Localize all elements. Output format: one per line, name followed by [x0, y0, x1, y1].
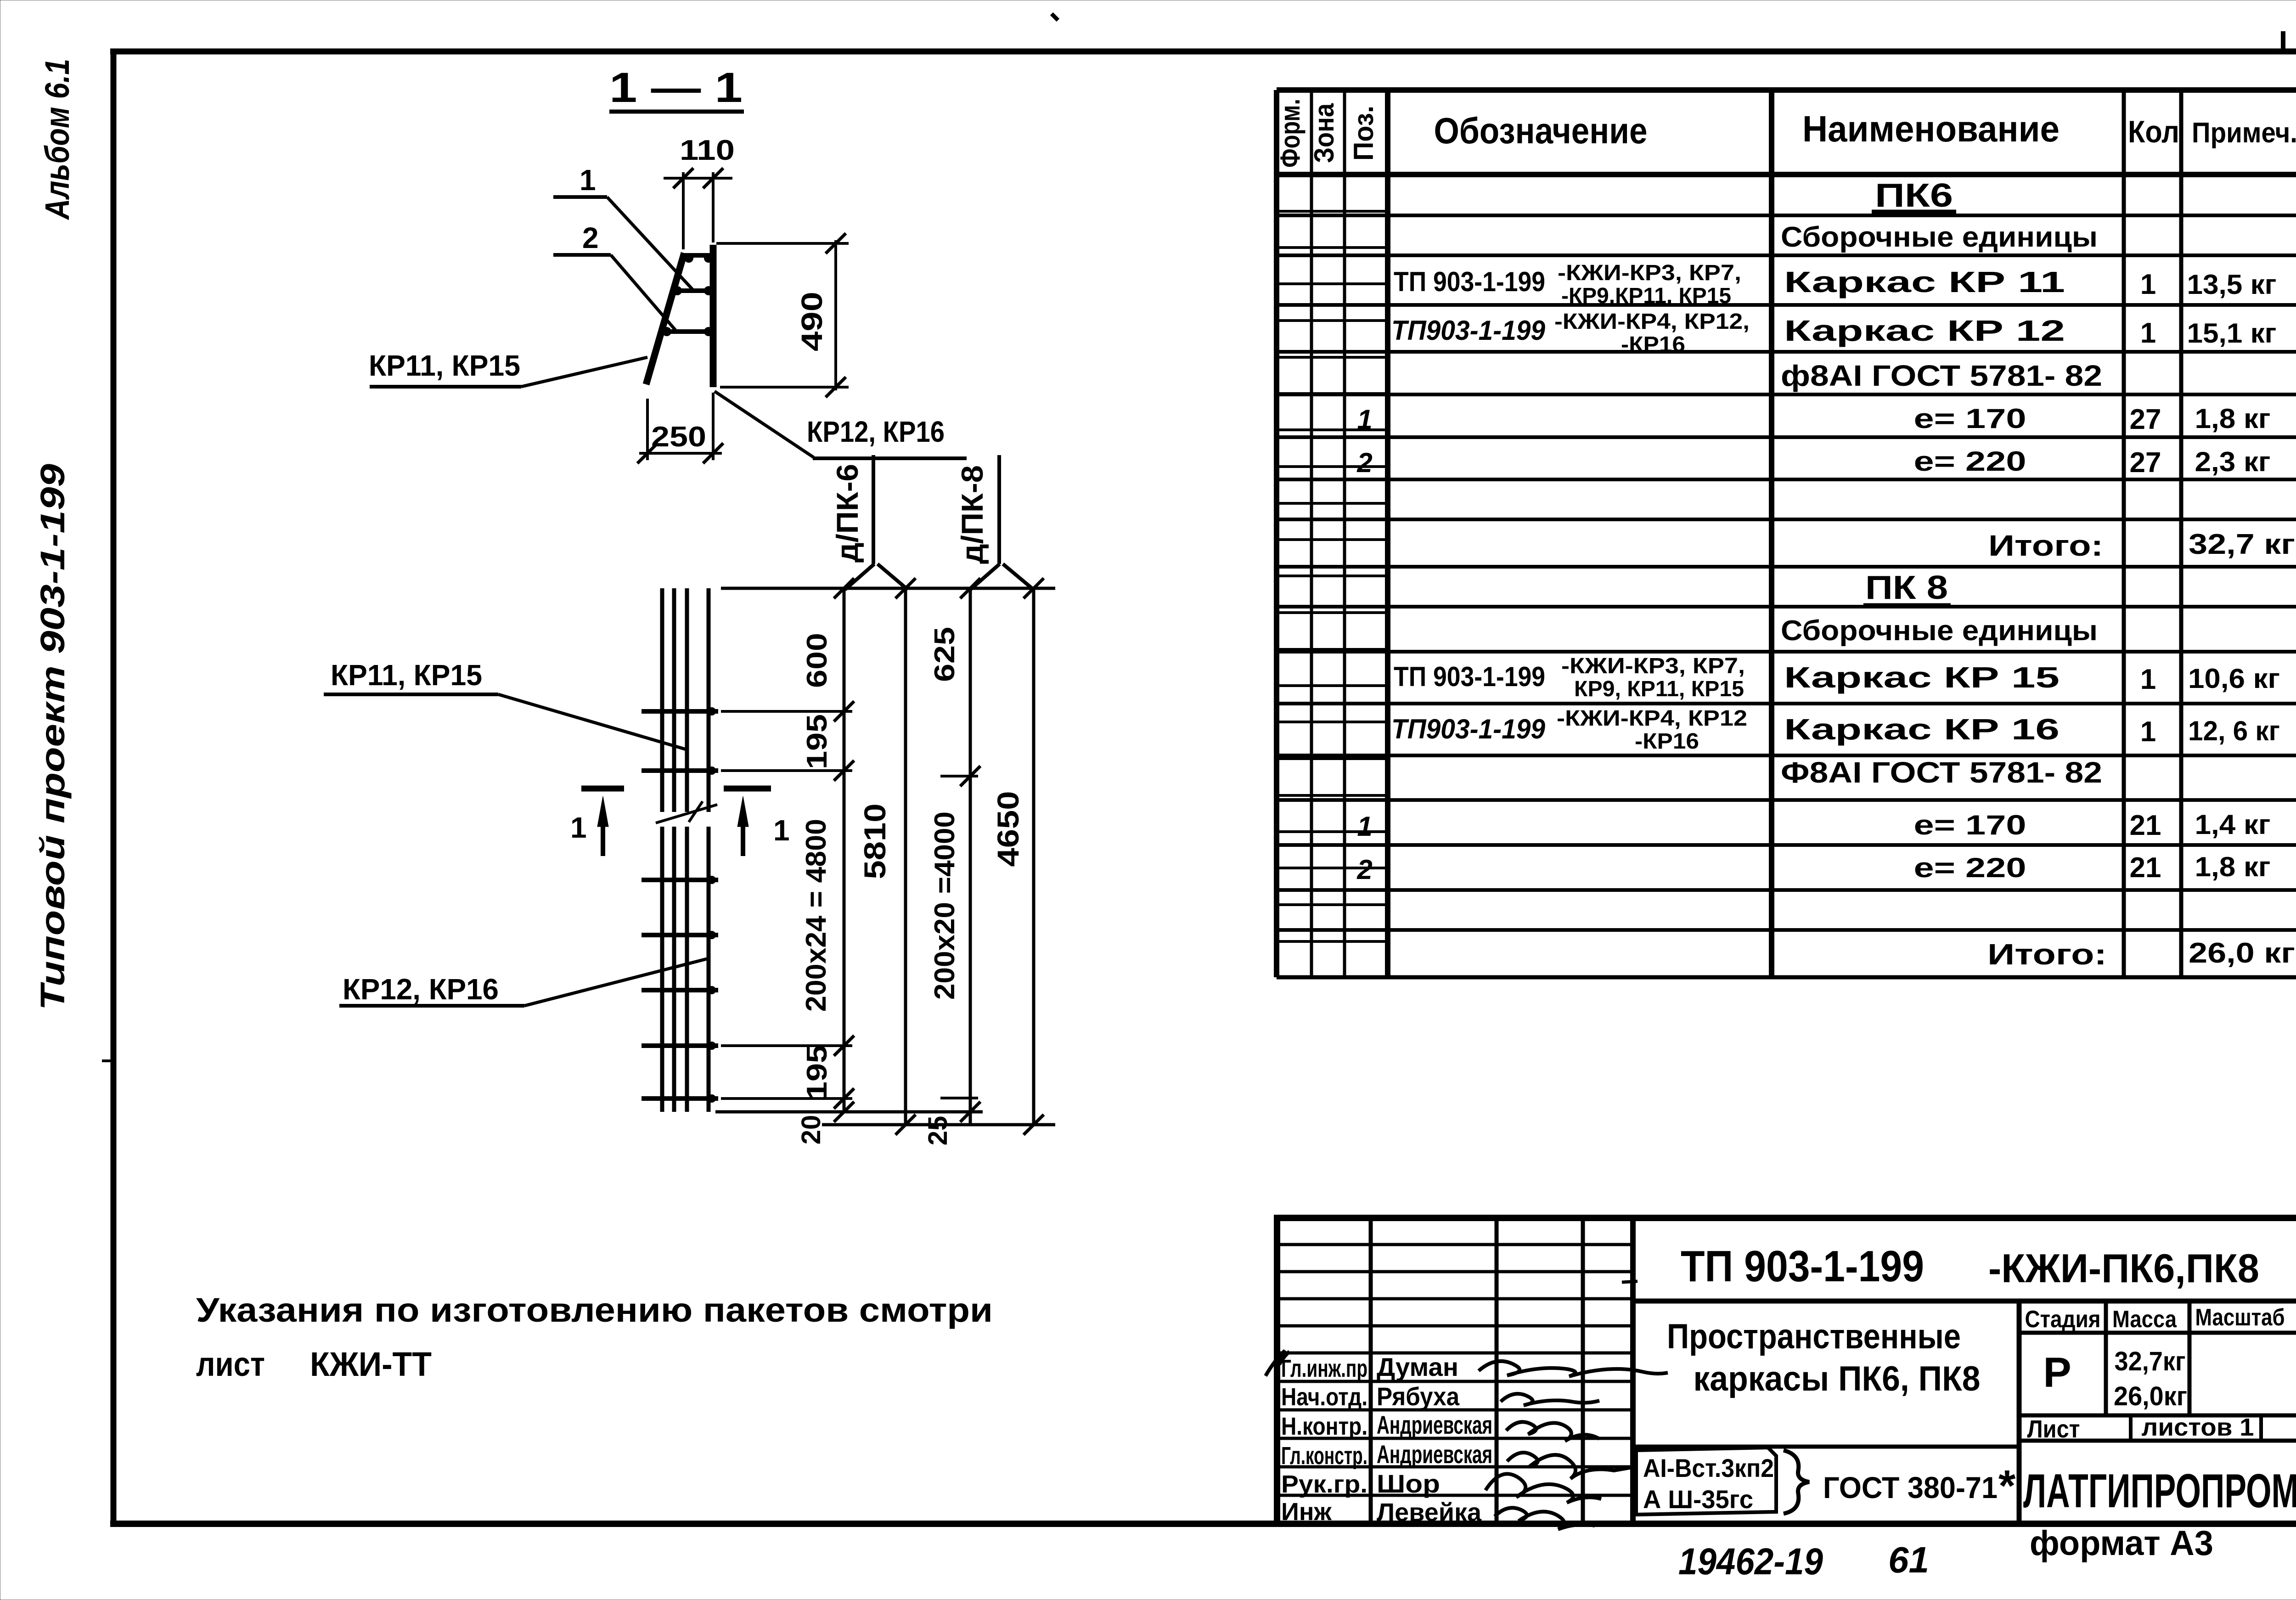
svg-text:26,0 кг: 26,0 кг [2189, 937, 2295, 969]
svg-text:Р: Р [2043, 1349, 2071, 1396]
svg-text:19462-19: 19462-19 [1678, 1541, 1823, 1583]
svg-text:ТП 903-1-199: ТП 903-1-199 [1394, 266, 1545, 297]
svg-text:27: 27 [2130, 404, 2161, 435]
svg-text:200х24 = 4800: 200х24 = 4800 [800, 819, 832, 1012]
svg-text:Ф8АІ ГОСТ 5781- 82: Ф8АІ ГОСТ 5781- 82 [1781, 756, 2102, 789]
svg-text:Нач.отд.: Нач.отд. [1281, 1383, 1367, 1411]
svg-text:ТП903-1-199: ТП903-1-199 [1391, 714, 1546, 744]
svg-text:Н.контр.: Н.контр. [1281, 1413, 1367, 1440]
svg-text:Гл.инж.пр: Гл.инж.пр [1281, 1355, 1367, 1382]
svg-text:Поз.: Поз. [1348, 106, 1379, 161]
svg-text:110: 110 [680, 135, 735, 166]
svg-text:ф8АІ ГОСТ 5781- 82: ф8АІ ГОСТ 5781- 82 [1781, 359, 2102, 392]
svg-text:250: 250 [651, 421, 706, 453]
svg-text:е= 220: е= 220 [1914, 852, 2026, 883]
svg-text:-КЖИ-КР4, КР12: -КЖИ-КР4, КР12 [1557, 706, 1747, 731]
svg-text:е= 170: е= 170 [1914, 403, 2026, 434]
svg-text:600: 600 [801, 633, 833, 688]
svg-text:2: 2 [1356, 447, 1372, 478]
svg-text:д/ПК-6: д/ПК-6 [830, 464, 864, 563]
svg-text:4650: 4650 [991, 791, 1025, 867]
svg-text:Сборочные единицы: Сборочные единицы [1781, 221, 2098, 253]
svg-text:ЛАТГИПРОПРОМ: ЛАТГИПРОПРОМ [2023, 1465, 2296, 1518]
svg-text:Шор: Шор [1377, 1469, 1440, 1498]
svg-text:26,0кг: 26,0кг [2114, 1381, 2187, 1411]
svg-text:Инж: Инж [1281, 1498, 1332, 1526]
svg-text:1: 1 [2140, 317, 2156, 349]
svg-text:КР12, КР16: КР12, КР16 [343, 973, 499, 1006]
svg-text:-КР9,КР11, КР15: -КР9,КР11, КР15 [1561, 284, 1731, 308]
svg-text:формат А3: формат А3 [2030, 1524, 2213, 1563]
svg-text:Примеч.: Примеч. [2192, 117, 2296, 149]
svg-text:-КЖИ-КР3, КР7,: -КЖИ-КР3, КР7, [1558, 261, 1741, 285]
svg-text:1: 1 [1357, 404, 1372, 435]
svg-text:Сборочные единицы: Сборочные единицы [1781, 615, 2098, 647]
svg-text:Каркас КР 11: Каркас КР 11 [1784, 265, 2065, 299]
svg-text:2: 2 [582, 221, 599, 254]
svg-text:1: 1 [2140, 269, 2156, 300]
svg-text:Рябуха: Рябуха [1377, 1382, 1460, 1411]
svg-text:-КЖИ-КР4, КР12,: -КЖИ-КР4, КР12, [1554, 310, 1750, 334]
svg-text:195: 195 [801, 714, 833, 769]
svg-text:А Ш-35гс: А Ш-35гс [1643, 1485, 1753, 1514]
svg-text:27: 27 [2130, 447, 2161, 479]
svg-text:-КЖИ-ПК6,ПК8: -КЖИ-ПК6,ПК8 [1988, 1245, 2259, 1291]
svg-text:32,7кг: 32,7кг [2115, 1346, 2186, 1376]
svg-text:Андриевская: Андриевская [1377, 1440, 1492, 1469]
svg-text:каркасы ПК6, ПК8: каркасы ПК6, ПК8 [1694, 1359, 1981, 1398]
svg-text:Альбом 6.1: Альбом 6.1 [38, 59, 76, 220]
svg-text:-КР16: -КР16 [1635, 729, 1699, 754]
svg-text:15,1 кг: 15,1 кг [2187, 318, 2277, 349]
svg-text:195: 195 [801, 1045, 833, 1100]
svg-text:Наименование: Наименование [1802, 108, 2060, 149]
svg-text:1: 1 [2140, 716, 2156, 748]
svg-text:Думан: Думан [1377, 1352, 1458, 1381]
svg-text:1: 1 [580, 163, 596, 197]
svg-text:21: 21 [2130, 810, 2161, 841]
svg-text:КР11, КР15: КР11, КР15 [331, 659, 482, 692]
svg-text:Андриевская: Андриевская [1377, 1410, 1492, 1439]
svg-text:КР9, КР11, КР15: КР9, КР11, КР15 [1574, 677, 1744, 701]
svg-text:д/ПК-8: д/ПК-8 [955, 465, 989, 564]
svg-text:21: 21 [2130, 852, 2161, 884]
svg-text:Масштаб: Масштаб [2195, 1304, 2285, 1331]
svg-text:32,7 кг: 32,7 кг [2189, 529, 2295, 560]
svg-text:1,8 кг: 1,8 кг [2195, 403, 2271, 434]
svg-text:1 — 1: 1 — 1 [609, 64, 743, 111]
svg-text:490: 490 [795, 292, 828, 351]
svg-text:е= 220: е= 220 [1914, 446, 2026, 477]
svg-text:ТП 903-1-199: ТП 903-1-199 [1681, 1242, 1924, 1291]
svg-text:Левейка: Левейка [1377, 1498, 1482, 1527]
svg-text:1: 1 [2140, 664, 2156, 695]
svg-text:КР11, КР15: КР11, КР15 [369, 349, 520, 382]
svg-text:Итого:: Итого: [1987, 938, 2107, 971]
svg-text:Обозначение: Обозначение [1434, 110, 1648, 151]
svg-text:Итого:: Итого: [1988, 529, 2103, 562]
svg-text:Масса: Масса [2112, 1306, 2177, 1333]
svg-text:Каркас КР 15: Каркас КР 15 [1784, 661, 2060, 694]
svg-text:ГОСТ 380-71: ГОСТ 380-71 [1823, 1470, 1998, 1504]
svg-text:Каркас КР 16: Каркас КР 16 [1784, 713, 2060, 746]
svg-text:1: 1 [773, 814, 790, 847]
svg-text:10,6 кг: 10,6 кг [2188, 663, 2280, 694]
svg-text:Кол: Кол [2128, 114, 2179, 149]
svg-text:12, 6 кг: 12, 6 кг [2188, 715, 2280, 746]
svg-text:Лист: Лист [2027, 1415, 2080, 1443]
svg-text:Зона: Зона [1309, 103, 1339, 163]
svg-text:-КЖИ-КР3, КР7,: -КЖИ-КР3, КР7, [1561, 654, 1745, 678]
svg-text:2: 2 [1356, 854, 1372, 885]
svg-text:1: 1 [1357, 811, 1372, 842]
svg-text:625: 625 [929, 627, 961, 682]
svg-text:200х20 =4000: 200х20 =4000 [929, 811, 961, 1000]
svg-text:АІ-Вст.3кп2: АІ-Вст.3кп2 [1643, 1454, 1774, 1482]
svg-text:КР12, КР16: КР12, КР16 [807, 415, 945, 448]
svg-text:1,8 кг: 1,8 кг [2195, 851, 2271, 882]
svg-text:1: 1 [570, 811, 587, 844]
svg-text:Форм.: Форм. [1275, 99, 1306, 168]
svg-text:-КР16: -КР16 [1621, 332, 1685, 357]
svg-text:е= 170: е= 170 [1914, 810, 2026, 840]
svg-text:Указания по изготовлению па: Указания по изготовлению пакетов смотри [196, 1291, 993, 1329]
svg-text:листов 1: листов 1 [2142, 1414, 2254, 1441]
svg-text:61: 61 [1888, 1539, 1929, 1580]
svg-text:Каркас КР 12: Каркас КР 12 [1784, 314, 2065, 347]
svg-text:КЖИ-ТТ: КЖИ-ТТ [310, 1345, 432, 1383]
svg-text:20: 20 [796, 1115, 826, 1145]
svg-text:2,3 кг: 2,3 кг [2195, 446, 2271, 477]
svg-text:1,4 кг: 1,4 кг [2195, 809, 2271, 840]
svg-text:ПК 8: ПК 8 [1865, 569, 1948, 606]
svg-text:Стадия: Стадия [2025, 1306, 2101, 1333]
svg-text:Пространственные: Пространственные [1667, 1317, 1961, 1356]
svg-text:Типовой проект 903-1-199: Типовой проект 903-1-199 [34, 464, 72, 1010]
svg-text:13,5 кг: 13,5 кг [2187, 269, 2277, 300]
svg-text:ПК6: ПК6 [1875, 177, 1953, 214]
svg-text:5810: 5810 [858, 804, 892, 879]
svg-text:25: 25 [923, 1116, 953, 1146]
svg-text:Рук.гр.: Рук.гр. [1281, 1470, 1367, 1498]
svg-text:лист: лист [196, 1345, 265, 1383]
svg-text:ТП903-1-199: ТП903-1-199 [1391, 315, 1546, 346]
svg-text:*: * [1998, 1461, 2016, 1510]
svg-text:Гл.констр.: Гл.констр. [1281, 1442, 1367, 1470]
svg-text:ТП 903-1-199: ТП 903-1-199 [1394, 661, 1545, 692]
